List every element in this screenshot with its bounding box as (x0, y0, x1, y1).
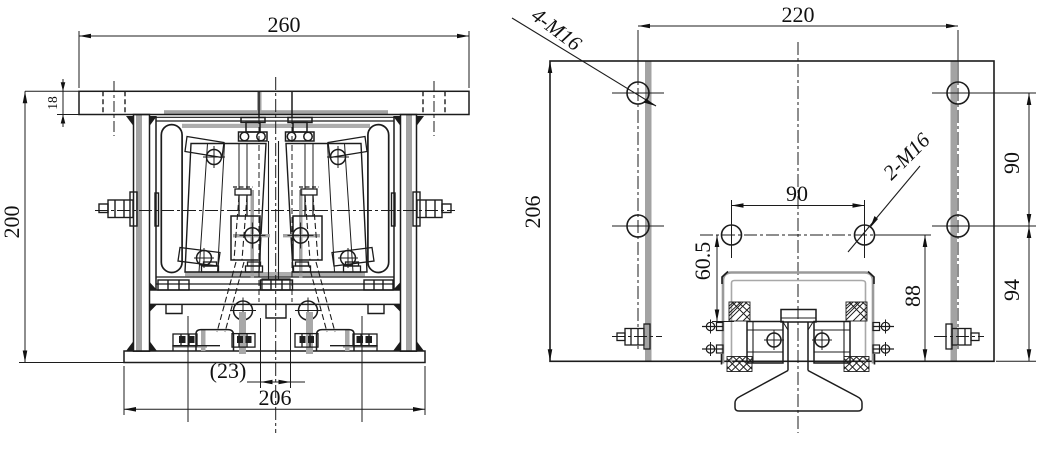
beam hex center (261, 280, 293, 290)
center block between beams (262, 279, 290, 290)
bottom bolt heads row (202, 262, 361, 272)
left foot hex B (232, 334, 255, 348)
right upper circle (327, 146, 349, 168)
small side bolt right upper (873, 320, 894, 334)
svg-text:94: 94 (999, 279, 1024, 301)
gray stripe left column (136, 115, 142, 352)
C cover gray inner (732, 281, 866, 364)
left upper circle (203, 146, 225, 168)
right wedge arm (286, 144, 367, 273)
left upper link bar (185, 137, 224, 158)
dim 206 bottom (124, 366, 425, 415)
dim 206 right view (548, 61, 553, 361)
plate hole left hidden lines (103, 91, 125, 114)
column fillet triangles top (126, 116, 424, 126)
right mid T-bolt (299, 187, 319, 216)
dim 60.5 (712, 235, 734, 322)
C cover gray outer (723, 273, 873, 364)
right column (401, 115, 417, 352)
left slot stadium (161, 125, 182, 273)
right foot block (317, 330, 355, 351)
hatched bolt top-right (846, 302, 867, 321)
gray bar inner bottom (185, 272, 365, 276)
dim 90 vertical (1027, 93, 1032, 226)
rail head (781, 310, 816, 323)
hole top-right (932, 82, 1036, 104)
beam hex left (158, 280, 189, 290)
inner frame verticals (156, 117, 394, 290)
hatched bolt bottom-left (727, 357, 752, 372)
gray stripe right hole column (951, 61, 958, 361)
left mid T-bolt (233, 187, 253, 216)
left wedge arm (185, 144, 266, 273)
left clamp block (747, 322, 784, 364)
left top bolt (239, 118, 268, 142)
C corner ticks (722, 272, 875, 365)
svg-text:206: 206 (259, 385, 292, 410)
central rod lines (259, 92, 292, 118)
gray stripe right column (406, 115, 412, 352)
pull rod hidden lines (259, 118, 292, 302)
dim 200 (19, 91, 124, 362)
dim 260 (79, 31, 469, 88)
right mid block (288, 216, 323, 260)
right foot pad (330, 346, 377, 351)
foot hex dark caps (179, 336, 372, 343)
left hole column centerline (637, 66, 639, 352)
left edge bolt (612, 324, 662, 349)
rail foot (735, 371, 862, 412)
label 4-M16 leader (512, 18, 656, 106)
plate hole right hidden lines (423, 91, 445, 114)
right top bolt (286, 118, 315, 142)
hatched bolt bottom-right (844, 357, 869, 372)
gray bar inner top (182, 124, 370, 128)
foot centerlines below base (188, 316, 362, 422)
beam fillets (150, 282, 401, 312)
cross beam (150, 290, 401, 304)
dim 18 (57, 79, 79, 127)
left column (134, 115, 150, 352)
right lower outer circle (338, 248, 358, 268)
dim 90 horizontal (732, 200, 865, 228)
inner frame top line (156, 117, 394, 121)
dim 94 (996, 226, 1036, 361)
right lower link bar (332, 248, 374, 267)
right foot hex B (295, 334, 318, 348)
svg-text:260: 260 (268, 12, 301, 37)
center vertical centerline (797, 42, 799, 433)
hatched bolt top-left (729, 302, 750, 321)
right lower circle (295, 298, 321, 324)
hanging bolt right (368, 304, 384, 313)
gray stripe left hole column (645, 61, 652, 361)
svg-text:18: 18 (45, 96, 60, 110)
svg-text:90: 90 (786, 181, 808, 206)
label 2-M16 leader (848, 166, 920, 252)
central spacer verticals (269, 141, 279, 279)
dim 220 (638, 24, 958, 82)
hole top-left (612, 82, 664, 104)
mid horizontal centerline (95, 210, 455, 212)
svg-text:90: 90 (999, 152, 1024, 174)
inner frame bottom lines (156, 277, 394, 284)
left side bolt (99, 192, 159, 226)
hanging bolt left (166, 304, 182, 313)
rail web (788, 322, 808, 371)
left lower circle (230, 298, 256, 324)
right edge bolt (934, 324, 984, 349)
hanging bolt center (266, 304, 286, 318)
dim 88 (875, 235, 931, 361)
right foot hex A (353, 334, 377, 346)
svg-text:2-M16: 2-M16 (878, 128, 935, 185)
left lower link bar (178, 248, 220, 267)
beam hex right (364, 280, 393, 290)
svg-text:60.5: 60.5 (690, 242, 715, 281)
middle holes axis dash-dot (700, 234, 905, 236)
left foot block (196, 330, 234, 351)
gray highlight under top plate (164, 110, 388, 114)
svg-text:4-M16: 4-M16 (527, 3, 587, 56)
plate outline (550, 61, 994, 361)
gray accents feet (174, 312, 376, 354)
right tie rod dashed (305, 196, 335, 332)
gray shaft streaks (233, 190, 320, 278)
svg-text:220: 220 (782, 2, 815, 27)
small side bolt left upper (702, 320, 723, 334)
hole mid-right (932, 215, 1036, 237)
hole center-right 2-M16 (855, 212, 875, 258)
right clamp block (812, 322, 850, 364)
column fillet triangles bottom (126, 341, 424, 351)
plate hole left centerline (113, 81, 115, 136)
hole center-left 2-M16 (722, 212, 742, 258)
left lower outer circle (194, 248, 214, 268)
right side bolt (392, 192, 452, 226)
small side bolt right lower (873, 342, 894, 356)
svg-text:88: 88 (900, 285, 925, 307)
svg-text:(23): (23) (210, 358, 247, 383)
right hole column centerline (957, 66, 959, 352)
left foot hex A (173, 334, 197, 346)
right slot stadium (368, 125, 389, 273)
svg-text:206: 206 (520, 196, 545, 229)
top plate (79, 91, 469, 114)
small side bolt left lower (702, 342, 723, 356)
dim (23) (247, 318, 305, 388)
right upper link bar (328, 137, 367, 158)
left foot pad (173, 346, 220, 351)
svg-text:200: 200 (0, 206, 24, 239)
gray stripe center rod (257, 92, 262, 115)
left mid block (231, 216, 266, 260)
left tie rod dashed (217, 196, 247, 332)
hole mid-left (612, 215, 664, 237)
base plate (124, 351, 425, 363)
center vertical centerline (275, 77, 277, 433)
plate hole right centerline (433, 81, 435, 136)
